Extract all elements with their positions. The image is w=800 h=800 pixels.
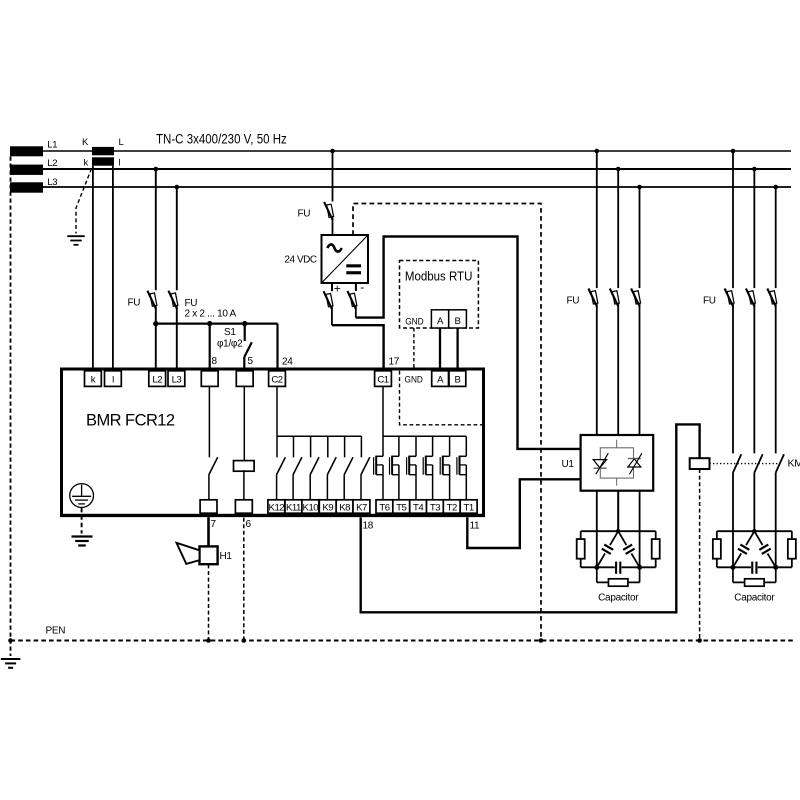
svg-text:L2: L2 bbox=[152, 375, 162, 386]
svg-text:17: 17 bbox=[389, 357, 400, 368]
svg-text:A: A bbox=[437, 316, 444, 327]
svg-text:T1: T1 bbox=[464, 502, 474, 513]
svg-text:GND: GND bbox=[405, 316, 423, 327]
svg-text:T4: T4 bbox=[413, 502, 424, 513]
svg-text:H1: H1 bbox=[220, 551, 233, 562]
svg-text:K9: K9 bbox=[322, 502, 333, 513]
svg-text:K: K bbox=[82, 137, 89, 148]
svg-text:L2: L2 bbox=[47, 158, 57, 169]
svg-text:U1: U1 bbox=[562, 459, 575, 470]
svg-text:18: 18 bbox=[363, 521, 374, 532]
svg-text:FU: FU bbox=[128, 298, 141, 309]
svg-text:T3: T3 bbox=[430, 502, 440, 513]
svg-text:8: 8 bbox=[212, 356, 218, 367]
svg-text:T6: T6 bbox=[379, 502, 389, 513]
svg-text:K7: K7 bbox=[356, 502, 367, 513]
svg-text:TN-C 3x400/230 V, 50 Hz: TN-C 3x400/230 V, 50 Hz bbox=[156, 130, 287, 146]
svg-text:2 x 2 ... 10 A: 2 x 2 ... 10 A bbox=[185, 309, 237, 320]
svg-text:k: k bbox=[91, 375, 96, 386]
svg-text:KM: KM bbox=[788, 458, 800, 470]
svg-text:T2: T2 bbox=[447, 502, 457, 513]
svg-text:-: - bbox=[360, 280, 364, 294]
svg-text:B: B bbox=[454, 375, 460, 386]
svg-text:K11: K11 bbox=[286, 502, 301, 513]
svg-text:K12: K12 bbox=[269, 502, 285, 513]
svg-text:FU: FU bbox=[298, 209, 311, 220]
svg-text:K10: K10 bbox=[303, 502, 319, 513]
svg-text:+: + bbox=[334, 282, 341, 296]
svg-text:l: l bbox=[119, 158, 121, 169]
svg-text:24 VDC: 24 VDC bbox=[284, 254, 317, 265]
svg-text:B: B bbox=[455, 316, 461, 327]
svg-text:K8: K8 bbox=[339, 502, 350, 513]
svg-text:Capacitor: Capacitor bbox=[598, 592, 639, 603]
svg-text:T5: T5 bbox=[396, 502, 406, 513]
svg-text:C1: C1 bbox=[377, 375, 388, 386]
svg-text:24: 24 bbox=[282, 357, 293, 368]
svg-text:GND: GND bbox=[405, 374, 423, 385]
svg-text:Capacitor: Capacitor bbox=[734, 592, 775, 603]
svg-text:L3: L3 bbox=[172, 375, 182, 386]
svg-text:φ1/φ2: φ1/φ2 bbox=[217, 339, 243, 350]
svg-text:BMR FCR12: BMR FCR12 bbox=[86, 412, 175, 430]
svg-text:C2: C2 bbox=[271, 375, 282, 386]
svg-text:FU: FU bbox=[567, 296, 580, 307]
svg-text:k: k bbox=[84, 158, 89, 169]
svg-text:FU: FU bbox=[703, 296, 716, 307]
svg-text:L3: L3 bbox=[47, 177, 57, 188]
svg-text:7: 7 bbox=[211, 519, 217, 530]
svg-text:5: 5 bbox=[248, 356, 254, 367]
svg-text:FU: FU bbox=[185, 298, 198, 309]
svg-text:Modbus RTU: Modbus RTU bbox=[405, 269, 472, 284]
svg-text:S1: S1 bbox=[224, 327, 236, 338]
svg-text:L: L bbox=[119, 137, 124, 148]
svg-text:PEN: PEN bbox=[46, 626, 66, 637]
svg-text:6: 6 bbox=[246, 519, 252, 530]
svg-text:L1: L1 bbox=[47, 140, 57, 151]
svg-text:11: 11 bbox=[470, 521, 481, 532]
